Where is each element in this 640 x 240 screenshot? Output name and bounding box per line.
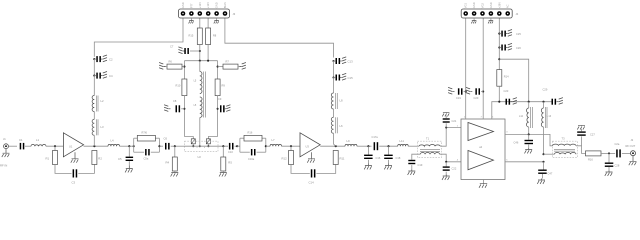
wire U3 out <box>320 145 345 147</box>
svg-text:C29: C29 <box>543 88 548 92</box>
capacitor C2 <box>94 55 113 62</box>
node input U3 <box>290 145 292 147</box>
svg-text:u4: u4 <box>479 145 483 149</box>
wire branch to L12 rail <box>499 59 528 101</box>
svg-text:R8: R8 <box>213 34 217 38</box>
svg-text:L6: L6 <box>340 124 344 128</box>
node C13 <box>332 60 334 62</box>
capacitor C8 <box>164 99 184 113</box>
node C5 <box>128 145 130 147</box>
wire R16 to node <box>601 152 615 154</box>
bias bar <box>184 60 217 62</box>
op-amp U3 <box>300 133 320 157</box>
svg-text:C25: C25 <box>516 32 521 36</box>
wire L6 to U3 output node <box>334 133 336 146</box>
svg-text:C9: C9 <box>218 97 222 101</box>
svg-text:C5: C5 <box>118 157 122 161</box>
header J3 pin 4 label <box>206 2 210 8</box>
wire rail to L2 <box>93 76 95 96</box>
U4 top out wire <box>505 134 553 145</box>
svg-text:+12V: +12V <box>198 2 202 8</box>
inductor L9 <box>345 139 357 146</box>
T1 secondary left to C19 <box>412 154 421 160</box>
node C7 <box>199 50 201 52</box>
svg-text:U3: U3 <box>306 145 310 149</box>
svg-text:+28V: +28V <box>497 2 501 8</box>
diode D2 bead <box>206 137 217 147</box>
svg-text:C10: C10 <box>228 150 233 154</box>
node output U1 <box>93 145 95 147</box>
svg-text:VG2: VG2 <box>481 2 485 8</box>
connector J1 RF IN <box>0 137 8 167</box>
capacitor C16 <box>364 146 381 169</box>
node net2 right <box>265 145 270 147</box>
op-amp U4A <box>468 123 494 141</box>
node net2 left <box>236 145 238 147</box>
capacitor C10 <box>228 143 234 154</box>
inductor L6 <box>331 117 343 133</box>
ground header J3 pin5 <box>214 18 219 23</box>
node out bottom <box>542 161 544 163</box>
node C20 <box>482 90 484 92</box>
T3 secondary <box>555 153 577 155</box>
svg-text:C14: C14 <box>309 181 315 185</box>
svg-text:R5: R5 <box>228 161 232 165</box>
resistor R10 <box>176 79 187 96</box>
svg-text:L3: L3 <box>101 125 105 129</box>
wire R9 to C9 node <box>217 96 219 137</box>
capacitor C6 <box>164 137 170 150</box>
wire bias left column <box>183 61 185 79</box>
capacitor C29 <box>543 88 563 105</box>
svg-text:L 13: L 13 <box>547 115 552 118</box>
node net1 right <box>158 145 163 147</box>
header J3 pin 1 <box>181 11 186 16</box>
svg-text:RF IN: RF IN <box>0 164 7 168</box>
capacitor C17a <box>372 135 379 150</box>
capacitor C18 <box>384 146 401 169</box>
svg-text:+12V: +12V <box>206 2 210 8</box>
svg-text:C19: C19 <box>418 163 423 167</box>
capacitor C46 <box>514 134 534 153</box>
wire C6 to U2 node <box>171 145 184 147</box>
svg-text:R14: R14 <box>504 75 509 79</box>
header J4 pin 4 label <box>489 2 493 8</box>
svg-text:R9: R9 <box>222 84 226 88</box>
resistor R11 <box>333 151 345 165</box>
wire L13 down <box>543 127 545 154</box>
node rail L12 <box>528 101 530 103</box>
node C28 <box>608 152 610 154</box>
svg-text:C15: C15 <box>348 76 354 80</box>
ground header J4 pin2 <box>471 18 476 23</box>
node D2 <box>207 145 209 147</box>
inductor L4 <box>108 139 120 147</box>
wire rail C13-C15 <box>333 61 335 78</box>
wire rail C2-C4 <box>93 59 95 76</box>
ground header J4 pin4 <box>488 18 493 23</box>
wire L3 to U1 output node <box>93 135 95 146</box>
svg-text:VG1: VG1 <box>464 2 468 8</box>
ground under U1 <box>71 152 79 163</box>
wire R14 to rail <box>498 86 500 102</box>
capacitor C1 <box>19 138 24 150</box>
svg-text:GND: GND <box>215 2 219 8</box>
T3 out to C27 <box>576 146 586 154</box>
capacitor C31 <box>537 162 553 184</box>
svg-text:C2: C2 <box>109 58 113 62</box>
node T3 bottom tap <box>542 153 544 155</box>
svg-text:C22: C22 <box>452 167 457 171</box>
capacitor C16a <box>248 149 256 161</box>
svg-text:C2a: C2a <box>615 142 620 146</box>
inductor L8 <box>331 93 343 109</box>
resistor R14 <box>497 70 509 87</box>
svg-text:R16: R16 <box>588 158 593 162</box>
svg-text:L12: L12 <box>519 115 524 118</box>
wire R8 to bias bar <box>207 45 209 61</box>
capacitor C20 <box>466 87 483 100</box>
svg-text:C28: C28 <box>615 163 620 167</box>
T1 primary <box>419 145 440 147</box>
capacitor C14 <box>309 169 316 184</box>
resistor R16 <box>586 151 602 162</box>
svg-text:R7/6: R7/6 <box>142 131 148 135</box>
inductor L11 <box>398 139 409 146</box>
svg-text:C8: C8 <box>173 99 177 103</box>
resistor R1 <box>46 146 58 164</box>
wire header pin3 to U4 <box>482 18 484 119</box>
wire R1 to bottom loop <box>55 165 72 174</box>
svg-text:R16: R16 <box>248 131 253 135</box>
node C4 <box>93 75 95 77</box>
resistor R12 <box>282 146 294 164</box>
resistor R4 <box>166 146 179 176</box>
header J4 pin 2 label <box>472 2 476 8</box>
capacitor C27 <box>577 125 595 146</box>
header J3 pin 2 <box>189 11 194 16</box>
svg-text:C17a: C17a <box>372 135 379 139</box>
wire L7 to U3 <box>282 145 301 147</box>
wire C1 to L1 <box>25 145 31 147</box>
wire L11 to T1 <box>408 145 419 147</box>
resistor R9 <box>215 79 225 96</box>
node C2 <box>93 58 95 60</box>
svg-text:L7: L7 <box>272 138 276 142</box>
node C16 <box>367 145 369 147</box>
wire J1 to C1 <box>9 145 17 147</box>
wire L9 to C16 node <box>357 145 372 147</box>
svg-text:C18: C18 <box>396 156 401 160</box>
wire C14 to R11 bottom <box>316 165 335 174</box>
capacitor C5 <box>118 146 133 172</box>
svg-text:C47: C47 <box>548 171 553 175</box>
svg-text:L11: L11 <box>400 139 405 143</box>
svg-text:R7: R7 <box>226 59 230 63</box>
T1 secondary <box>420 152 439 154</box>
header J4 pin 3 label <box>481 2 485 8</box>
svg-text:C5a: C5a <box>144 157 149 161</box>
ground under J1 <box>2 149 10 157</box>
ground header J3 pin2 <box>189 18 194 23</box>
header J4 pin 3 <box>480 11 485 16</box>
node R5 <box>222 145 224 147</box>
wire U2 to R5 node <box>184 145 228 147</box>
wire header pin6 rail <box>225 18 334 58</box>
svg-text:U1: U1 <box>69 145 73 149</box>
wire C17a to C18 node <box>379 145 397 147</box>
dashed box T1 <box>417 137 441 158</box>
ground under U4 <box>479 180 487 188</box>
capacitor C20a <box>448 87 466 100</box>
header J4 pin 1 label <box>464 2 468 8</box>
U2 pin texts <box>197 147 207 149</box>
header J4 pin 4 <box>489 11 494 16</box>
node L5 RF <box>199 145 201 147</box>
svg-text:C21: C21 <box>452 119 457 123</box>
supply rail U4 <box>492 102 552 119</box>
resistor R2 <box>92 151 102 165</box>
svg-text:R12: R12 <box>282 157 288 161</box>
svg-text:L4: L4 <box>111 139 115 143</box>
capacitor C9 <box>218 97 231 113</box>
capacitor C22 <box>442 162 457 180</box>
svg-text:BIAS: BIAS <box>223 2 227 8</box>
node R7 tap <box>217 66 219 68</box>
wire header pin1 rail <box>94 18 183 57</box>
svg-text:C27: C27 <box>590 133 595 137</box>
capacitor C19 <box>408 160 423 175</box>
node net1 left <box>133 145 135 147</box>
capacitor C21 <box>442 112 457 127</box>
T1 core <box>420 150 440 152</box>
svg-text:R11: R11 <box>340 157 345 161</box>
wire C3 to R2 bottom <box>78 165 94 174</box>
capacitor C7 <box>170 45 200 55</box>
node branch 12V <box>498 58 500 60</box>
svg-text:PTT: PTT <box>189 3 193 8</box>
U4 bottom out wire <box>505 161 544 163</box>
header J3 pin 4 <box>206 11 211 16</box>
node output U3 <box>335 145 337 147</box>
node C25 <box>498 33 500 35</box>
diode D1 bead <box>184 137 195 147</box>
wire header pin3 drop <box>199 18 201 28</box>
svg-text:L2: L2 <box>101 99 105 103</box>
header J4 pin 6 <box>505 11 510 16</box>
svg-text:R1: R1 <box>46 157 50 161</box>
inductor L7 <box>270 138 282 146</box>
wire header pin4 drop <box>207 18 209 28</box>
header J3 pin 5 label <box>215 2 219 8</box>
header J4 pin 5 <box>497 11 502 16</box>
svg-text:R4: R4 <box>166 161 170 165</box>
svg-text:NC: NC <box>506 4 510 8</box>
capacitor C13 <box>334 57 354 64</box>
capacitor C25 <box>499 30 521 37</box>
svg-text:C20: C20 <box>474 96 479 100</box>
svg-text:R10: R10 <box>176 84 181 88</box>
wire R12 to bottom loop <box>291 165 310 174</box>
header J3 pin 1 label <box>181 2 185 8</box>
svg-text:R15: R15 <box>189 34 194 38</box>
svg-text:GND: GND <box>472 2 476 8</box>
header J4 pin 1 <box>463 11 468 16</box>
node C19b <box>465 90 467 92</box>
wire L8-L6 <box>333 109 335 117</box>
header J3 pin 6 <box>223 11 228 16</box>
inductor L13 <box>541 102 551 128</box>
T3 primary <box>553 144 576 146</box>
node D1 <box>192 145 194 147</box>
wire L2-L3 <box>93 112 95 120</box>
svg-text:C7: C7 <box>170 45 174 49</box>
op-amp U1 <box>63 133 83 157</box>
svg-text:C23: C23 <box>504 89 509 93</box>
resistor R5 <box>219 146 232 176</box>
wire R10 to C8 node <box>183 96 185 137</box>
svg-text:GND: GND <box>181 2 185 8</box>
node C9 <box>217 108 219 110</box>
inductor L1 <box>31 138 46 146</box>
node input U1 <box>54 145 56 147</box>
connector J2 RF OUT <box>626 138 636 156</box>
resistor R7 <box>218 59 238 69</box>
node rail R14 <box>498 101 500 103</box>
T3 secondary left <box>544 153 555 155</box>
node C15 <box>332 76 334 78</box>
capacitor C5a <box>144 149 150 161</box>
wire L5 to RF line <box>199 118 201 147</box>
header J3 box <box>179 9 236 18</box>
wire header pin5 drop <box>498 18 500 70</box>
header J4 box <box>461 9 519 18</box>
svg-text:C3: C3 <box>72 181 76 185</box>
capacitor C23 <box>504 89 517 105</box>
dashed box U2 <box>185 141 219 159</box>
resistor R15 <box>189 28 203 45</box>
T1 out bottom <box>440 154 461 162</box>
U4 pin numbers <box>457 117 509 162</box>
svg-text:C4: C4 <box>109 74 113 78</box>
ground under U3 <box>307 152 315 163</box>
capacitor C15 <box>334 73 354 80</box>
svg-text:L1: L1 <box>36 138 40 142</box>
wire header pin1 to U4 <box>465 18 467 119</box>
svg-text:C13: C13 <box>348 59 354 63</box>
header J3 pin 5 <box>214 11 219 16</box>
wire rail to L8 <box>333 78 335 94</box>
resistor R6 <box>167 59 184 69</box>
inductor L12 <box>519 102 532 128</box>
node R4 <box>174 145 176 147</box>
capacitor C28 <box>605 153 620 176</box>
header J3 pin 6 label <box>223 2 227 8</box>
T1 out top <box>440 128 461 147</box>
svg-text:L8: L8 <box>340 99 344 103</box>
svg-text:C19: C19 <box>456 96 461 100</box>
capacitor C3 <box>72 169 78 184</box>
wire R15 to C7 node <box>199 45 201 61</box>
inductor L5 <box>194 61 206 118</box>
wire L4 to node C5 <box>120 145 134 147</box>
header J3 pin 3 <box>198 11 203 16</box>
node out top <box>528 133 530 135</box>
resistor R8 <box>206 28 217 45</box>
wire L12 to out node <box>528 127 530 134</box>
header J3 pin 2 label <box>189 3 193 8</box>
svg-text:C26: C26 <box>516 46 521 50</box>
T3 core <box>554 149 575 151</box>
resistor R7/6 <box>137 131 155 141</box>
svg-text:RF OUT: RF OUT <box>626 144 636 148</box>
wire U1 out <box>84 145 108 147</box>
svg-text:C16: C16 <box>376 156 381 160</box>
header J4 pin 6 label <box>506 4 510 8</box>
node C21 <box>445 126 447 128</box>
svg-text:L9: L9 <box>347 139 351 143</box>
node C18 <box>387 145 389 147</box>
IC U4 box <box>461 119 505 180</box>
node C8 <box>183 108 185 110</box>
svg-text:C1: C1 <box>19 138 23 142</box>
wire net1 frame <box>134 138 160 152</box>
node C26 <box>498 46 500 48</box>
capacitor C2a <box>615 142 621 158</box>
svg-text:R6: R6 <box>169 59 173 63</box>
wire C2a to J2 <box>622 152 630 154</box>
ground under J2 <box>629 156 637 165</box>
capacitor C26 <box>499 43 521 50</box>
svg-text:C6: C6 <box>164 137 168 141</box>
header J4 pin 5 label <box>497 2 501 8</box>
wire C10 to net2 <box>235 145 240 147</box>
resistor R16a <box>244 131 262 141</box>
dashed box T3 <box>552 137 577 158</box>
capacitor C4 <box>94 72 113 79</box>
svg-text:U2: U2 <box>198 155 202 159</box>
wire bias right column <box>217 61 219 79</box>
svg-text:R2: R2 <box>98 157 102 161</box>
svg-text:C16a: C16a <box>248 157 255 161</box>
ground right of R7 <box>238 63 246 70</box>
inductor L2 <box>92 96 104 112</box>
ground left of R6 <box>159 63 167 70</box>
node R6 tap <box>183 66 185 68</box>
svg-text:C46: C46 <box>514 140 519 144</box>
wire net2 frame <box>237 138 266 152</box>
inductor L3 <box>92 119 104 135</box>
header J4 pin 2 <box>472 11 477 16</box>
node rail L13 <box>542 101 544 103</box>
node C22 <box>445 161 447 163</box>
svg-text:GND: GND <box>489 2 493 8</box>
wire L1 to node <box>46 145 63 147</box>
op-amp U4B <box>468 151 494 170</box>
header J3 pin 3 label <box>198 2 202 8</box>
